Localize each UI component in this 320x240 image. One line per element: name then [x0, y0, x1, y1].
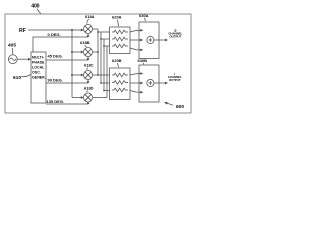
wire stub to 620B row 2	[100, 82, 102, 84]
wire stub to 620A row 2	[100, 38, 102, 40]
svg-text:600: 600	[176, 104, 184, 110]
resistor network 620A	[110, 27, 131, 54]
summer 630B	[139, 65, 159, 102]
wire bus rail 1	[97, 29, 99, 75]
label 400 (figure reference, top)	[31, 4, 41, 14]
wire LO phase 45 deg to mixer 618B	[46, 59, 88, 60]
svg-text:PHASE: PHASE	[32, 61, 45, 65]
wire mixer 618C output through bus to 620B row 1	[93, 74, 110, 76]
label 618B	[80, 40, 90, 47]
svg-text:GENER.: GENER.	[32, 76, 46, 80]
svg-text:90 DEG.: 90 DEG.	[48, 78, 63, 83]
svg-text:400: 400	[31, 4, 39, 10]
mixer 618A	[84, 25, 93, 34]
summer 630A	[139, 22, 159, 59]
label 618D	[84, 86, 94, 93]
resistor R3 (620A row 3)	[112, 44, 128, 48]
svg-text:610: 610	[13, 75, 21, 81]
svg-text:630B: 630B	[138, 58, 148, 63]
svg-text:618B: 618B	[80, 40, 90, 45]
svg-text:618C: 618C	[84, 63, 94, 68]
wire stub to 620B row 3	[103, 90, 105, 92]
label 618A	[85, 14, 95, 24]
svg-text:LOCAL: LOCAL	[32, 66, 45, 70]
wire bus rail 4	[106, 46, 108, 98]
svg-text:618A: 618A	[85, 14, 95, 19]
svg-text:OUTPUT: OUTPUT	[169, 35, 181, 39]
label Q CHANNEL OUTPUT	[168, 29, 182, 39]
wire RF vertical trunk	[71, 30, 73, 98]
svg-text:0 DEG.: 0 DEG.	[48, 32, 61, 37]
svg-text:45 DEG.: 45 DEG.	[48, 54, 63, 59]
svg-text:RF: RF	[19, 28, 26, 34]
resistor R1 (620A row 1)	[112, 30, 128, 34]
wire mixer 618B output to bus	[93, 51, 98, 53]
resistor R4 (620B row 1)	[112, 73, 128, 77]
label 600 (bottom right reference)	[164, 102, 184, 110]
label 630B	[138, 58, 148, 65]
svg-text:MULTI-: MULTI-	[32, 56, 45, 60]
svg-text:OUTPUT: OUTPUT	[169, 78, 181, 82]
resistor R6 (620B row 3)	[112, 88, 128, 92]
svg-text:135 DEG.: 135 DEG.	[47, 99, 65, 104]
block 610 multi-phase local osc generator	[31, 52, 46, 103]
wire mixer 618D output to bus rail 4	[93, 97, 107, 99]
svg-text:620A: 620A	[112, 15, 122, 20]
mixer 618B	[84, 48, 93, 57]
svg-text:405: 405	[8, 43, 16, 49]
wire LO phase 135 deg to mixer 618D	[46, 103, 88, 105]
wire bus rail 2	[100, 32, 102, 83]
label 405	[8, 43, 16, 55]
wire mixer 618A output to bus rail 1	[93, 28, 98, 30]
label 610	[13, 75, 31, 82]
svg-text:620B: 620B	[112, 58, 122, 63]
label I CHANNEL OUTPUT	[168, 72, 182, 82]
label 620A	[112, 15, 122, 27]
svg-text:618D: 618D	[84, 86, 94, 91]
wire RF input to mixer 618A	[28, 29, 82, 31]
summing node circle 630A	[147, 36, 154, 43]
mixer 618C	[84, 71, 93, 80]
wire I channel output	[154, 82, 166, 84]
mixer 618D	[84, 93, 93, 102]
wire stub to 620A row 3	[103, 45, 105, 47]
wires 620B outputs to summer 630B	[130, 82, 139, 84]
wire RF stub to mixer 618D	[72, 97, 82, 99]
svg-text:OSC.: OSC.	[32, 71, 41, 75]
outer border	[5, 14, 191, 113]
wire RF stub to mixer 618B	[71, 51, 73, 53]
wire Q channel output	[154, 39, 166, 41]
wire LO phase 0 deg to mixer 618A	[33, 36, 88, 52]
label 618C	[84, 63, 94, 70]
wire LO phase 90 deg to mixer 618C	[46, 82, 88, 83]
wire stub to 620A row 1	[97, 31, 99, 33]
label 630A	[139, 13, 149, 21]
resistor R2 (620A row 2)	[112, 37, 128, 41]
resistor R5 (620B row 2)	[112, 81, 128, 85]
wire RF stub to mixer 618C	[71, 74, 73, 76]
wire bus rail 3	[103, 39, 105, 91]
wire oscillator to block 610	[17, 58, 28, 60]
label 620B	[112, 58, 122, 67]
summing node circle 630B	[147, 79, 154, 86]
oscillator 405	[8, 55, 17, 64]
svg-text:630A: 630A	[139, 13, 149, 18]
wires 620A outputs to summer 630A	[130, 39, 139, 41]
resistor network 620B	[110, 68, 131, 100]
